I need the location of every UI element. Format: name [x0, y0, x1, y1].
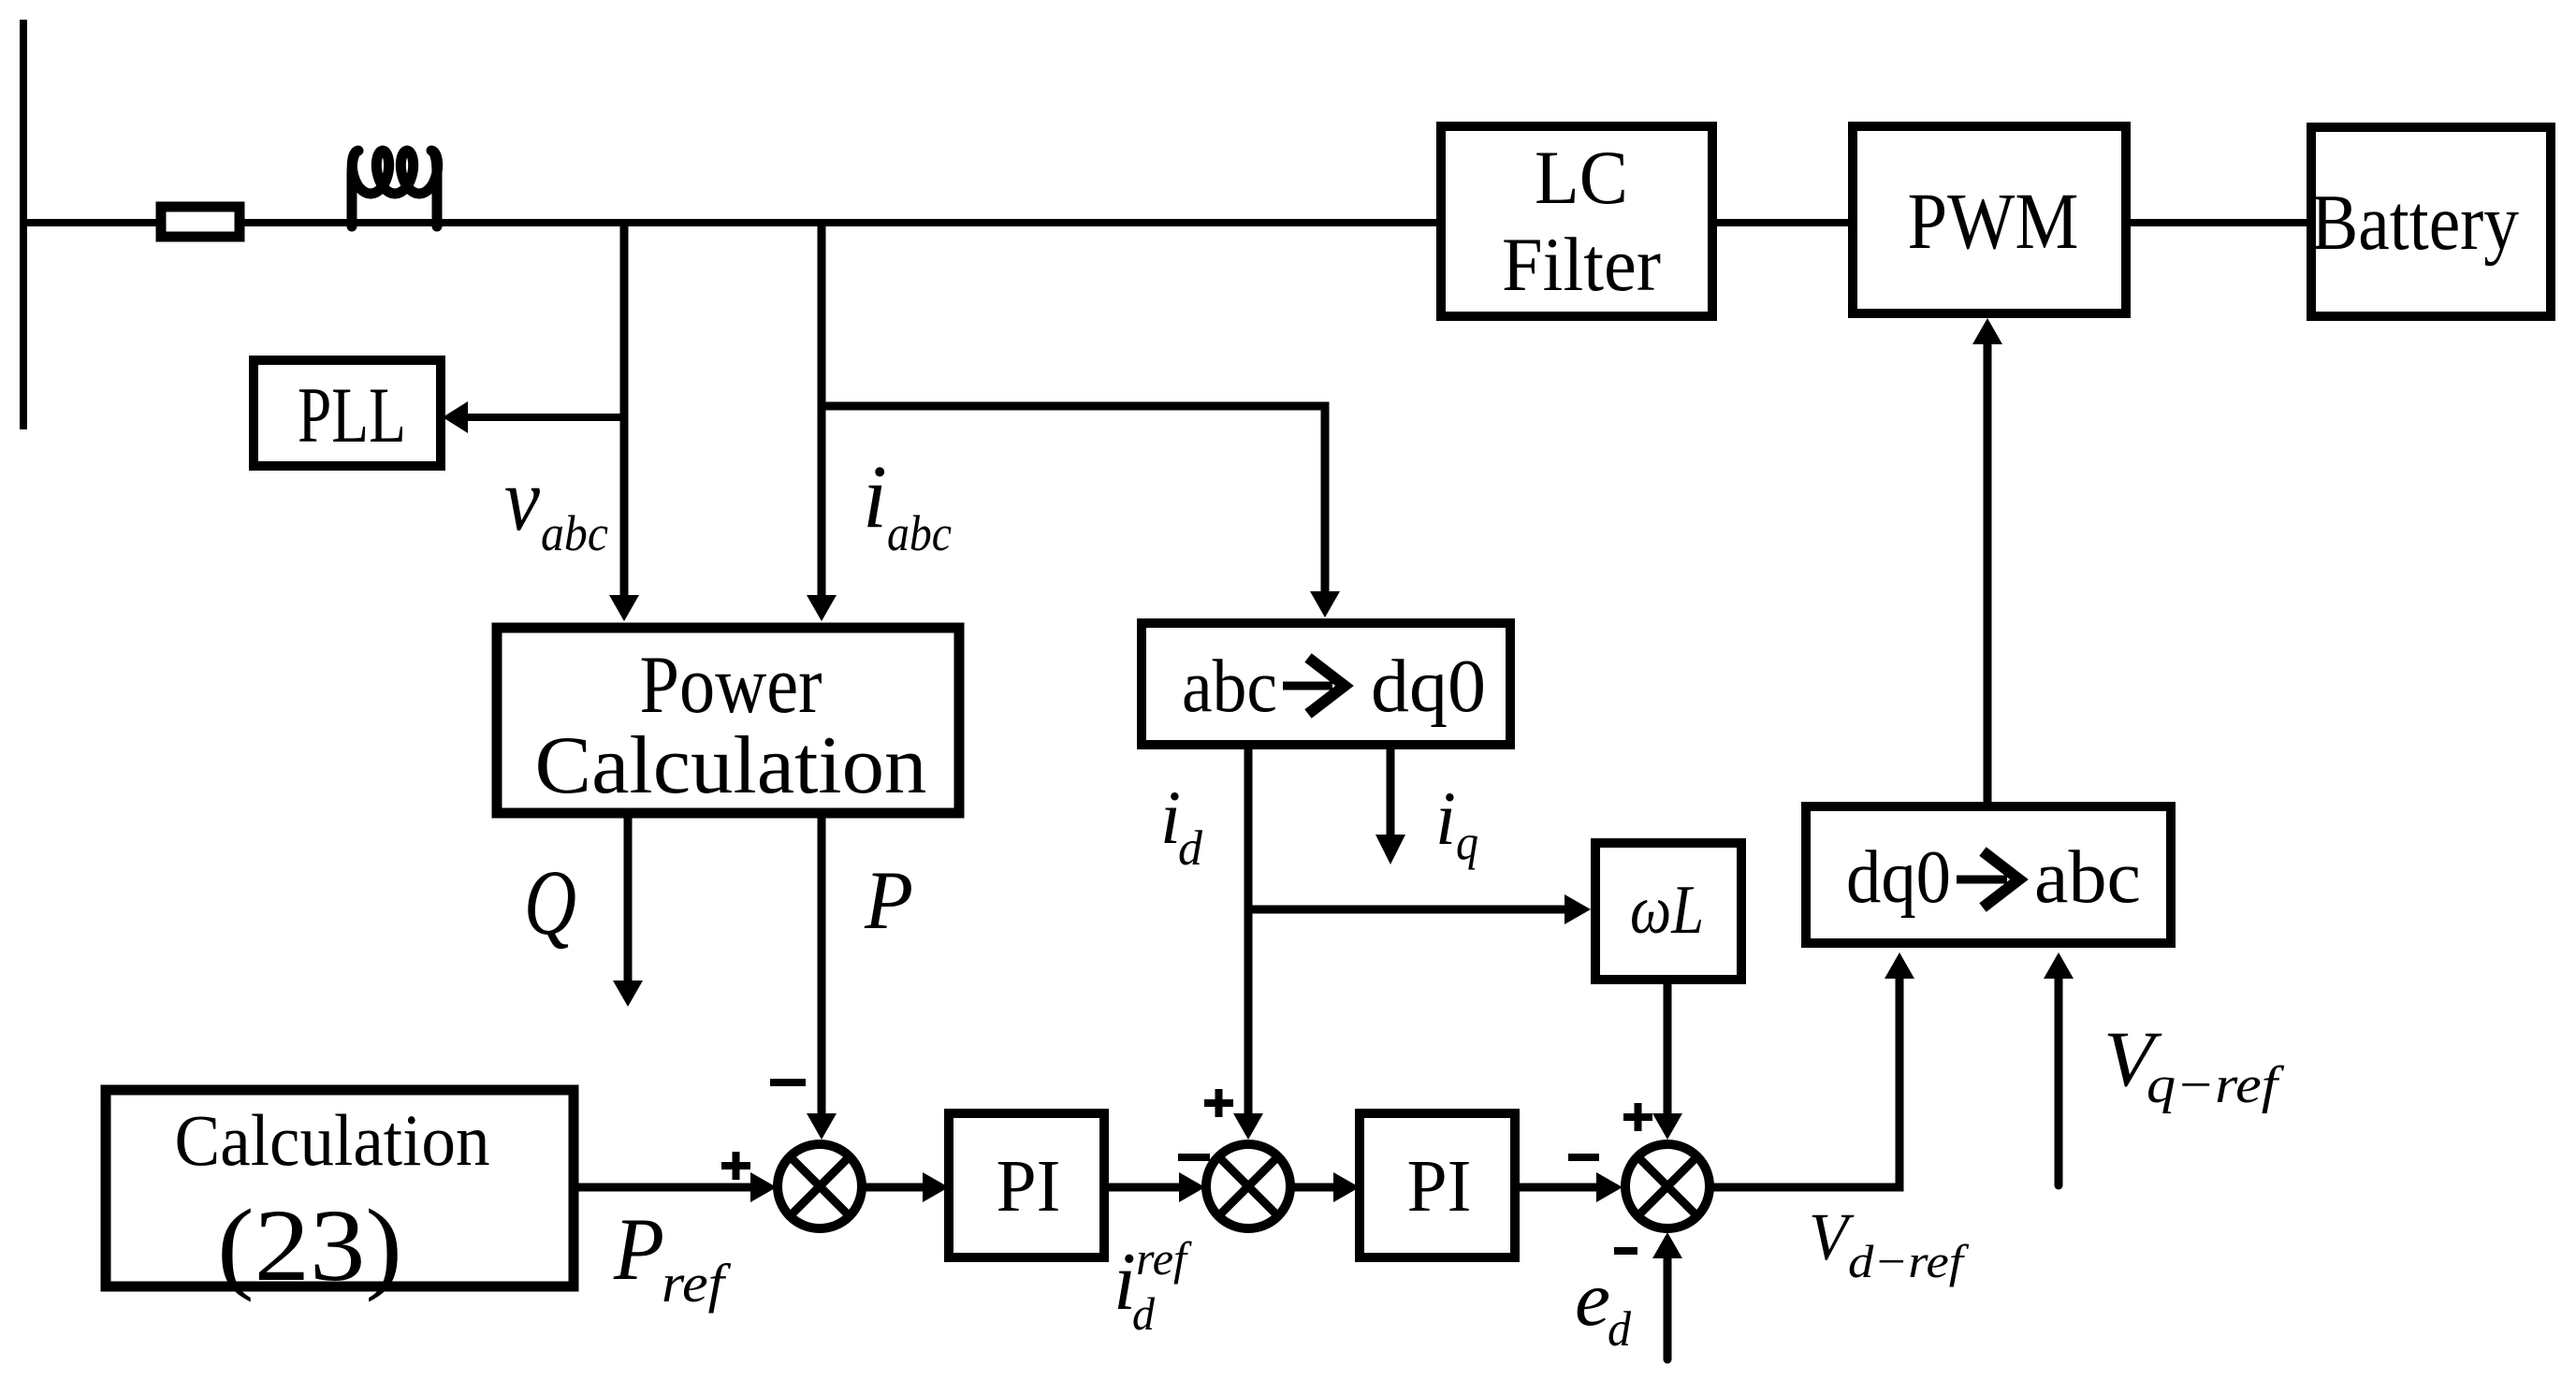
block abc to dq0	[1142, 623, 1510, 745]
svg-text:ref: ref	[662, 1253, 731, 1314]
label plus at sum1	[721, 1152, 750, 1180]
label V_q-ref	[2103, 1015, 2285, 1114]
inductor L (coupling inductor)	[352, 151, 438, 226]
wire LC Filter to PWM	[1712, 219, 1853, 226]
svg-text:Battery: Battery	[2311, 179, 2519, 267]
label i_abc	[863, 446, 952, 561]
svg-text:PLL: PLL	[298, 371, 406, 459]
svg-text:Power: Power	[640, 640, 822, 731]
svg-text:ωL: ωL	[1630, 872, 1704, 949]
wire e_d input up into sum3	[1664, 1255, 1672, 1359]
label minus above sum1 (P input)	[770, 1079, 806, 1086]
wire sum3 output V_d-ref to dq0-abc	[1710, 979, 1899, 1187]
wire main line from bus to LC Filter	[20, 219, 1442, 226]
svg-text:Q: Q	[524, 850, 576, 954]
block Calculation (23)	[106, 1090, 574, 1302]
label plus above sum2	[1204, 1089, 1233, 1117]
wire i_d drop from abc-dq0 to sum2	[1244, 745, 1253, 1113]
wire PLL feed from v_abc node	[468, 414, 624, 421]
wire i_abc branch to abc-dq0	[822, 406, 1325, 591]
wire PI1 to sum2	[1104, 1184, 1180, 1192]
svg-text:d−ref: d−ref	[1848, 1235, 1970, 1287]
svg-text:i: i	[863, 446, 887, 546]
wire i_abc drop to Power Calculation	[818, 223, 826, 599]
block PI 2	[1360, 1113, 1515, 1257]
block dq0 to abc	[1806, 806, 2171, 943]
wire PWM to Battery	[2124, 219, 2311, 226]
wire Calculation to sum1 (P_ref)	[574, 1184, 751, 1192]
svg-text:P: P	[864, 855, 913, 947]
svg-text:q: q	[1456, 816, 1478, 870]
svg-text:e: e	[1575, 1256, 1610, 1343]
svg-text:d: d	[1178, 821, 1202, 876]
wire wL to sum3	[1664, 980, 1672, 1113]
svg-text:d: d	[1132, 1287, 1156, 1340]
summing junction S1	[778, 1144, 862, 1228]
label e_d	[1575, 1256, 1631, 1357]
label minus below sum3 (e_d input)	[1614, 1247, 1637, 1255]
block Power Calculation	[497, 628, 959, 813]
svg-text:P: P	[613, 1199, 664, 1299]
block PWM	[1853, 126, 2126, 313]
node grid-bus bar	[20, 20, 27, 429]
svg-text:q−ref: q−ref	[2147, 1056, 2285, 1114]
wire P output drop to sum1	[818, 818, 826, 1113]
svg-text:Calculation: Calculation	[175, 1099, 490, 1181]
block PLL	[254, 360, 441, 466]
block PI 1	[949, 1113, 1104, 1257]
svg-text:(23): (23)	[217, 1188, 402, 1302]
svg-text:PI: PI	[1407, 1146, 1472, 1227]
svg-text:PWM: PWM	[1908, 176, 2079, 266]
svg-text:abc: abc	[2034, 836, 2141, 919]
svg-text:abc: abc	[887, 505, 952, 561]
wire v_abc drop to Power Calculation	[620, 223, 629, 599]
wire sum1 to PI1	[862, 1184, 924, 1192]
svg-text:dq0: dq0	[1846, 836, 1951, 919]
svg-text:ref: ref	[1136, 1232, 1192, 1285]
summing junction S2	[1206, 1144, 1290, 1228]
wire dq0-abc up to PWM	[1984, 344, 1992, 806]
block wL (omega-L cross coupling)	[1595, 843, 1741, 980]
block LC Filter	[1441, 126, 1712, 316]
svg-text:Filter: Filter	[1502, 222, 1661, 307]
svg-text:LC: LC	[1535, 135, 1628, 220]
label plus above sum3	[1623, 1103, 1652, 1131]
resistor R (grid impedance)	[161, 207, 240, 237]
wire V_q-ref input up into dq0-abc	[2055, 979, 2063, 1185]
svg-text:Calculation: Calculation	[535, 720, 927, 811]
label i_d_ref	[1113, 1232, 1192, 1340]
svg-text:dq0: dq0	[1371, 646, 1486, 728]
svg-text:d: d	[1608, 1302, 1631, 1357]
label P_ref	[613, 1199, 731, 1314]
wire i_q output	[1387, 745, 1395, 835]
svg-text:abc: abc	[1182, 646, 1277, 728]
label i_d	[1160, 775, 1202, 876]
wire sum2 to PI2	[1290, 1184, 1335, 1192]
summing junction S3	[1625, 1144, 1710, 1228]
svg-text:i: i	[1435, 776, 1456, 861]
wire i_d branch to wL block	[1248, 906, 1566, 914]
wire PI2 to sum3	[1515, 1184, 1598, 1192]
label V_d-ref	[1809, 1199, 1970, 1287]
label minus left of sum3	[1568, 1154, 1599, 1161]
svg-text:v: v	[504, 449, 540, 549]
label i_q	[1435, 776, 1478, 870]
svg-text:abc: abc	[541, 505, 608, 561]
svg-text:PI: PI	[997, 1146, 1061, 1227]
label minus left of sum2	[1178, 1154, 1210, 1161]
wire Q output drop	[624, 818, 633, 981]
block Battery	[2311, 127, 2551, 316]
label v_abc	[504, 449, 608, 561]
